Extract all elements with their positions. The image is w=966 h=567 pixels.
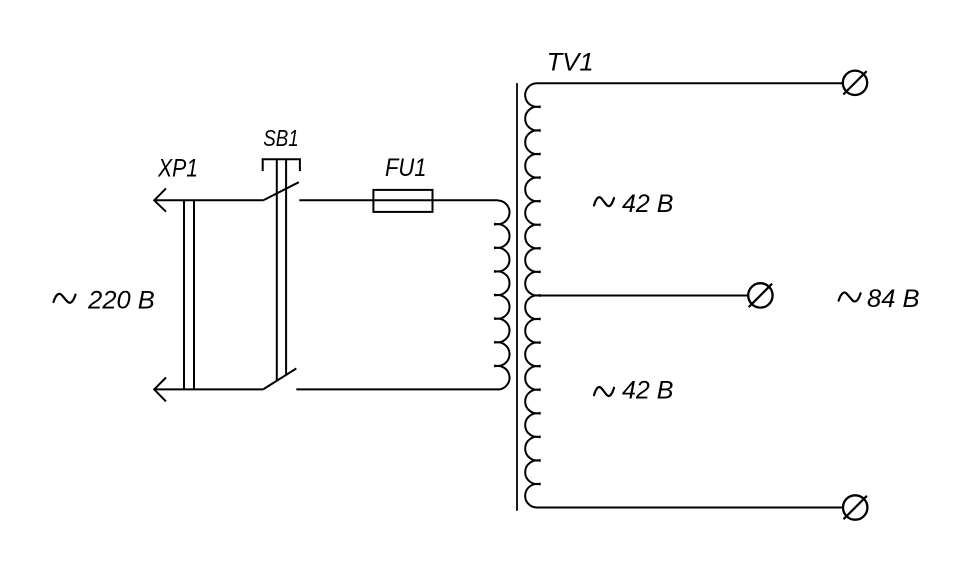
- svg-text:42 В: 42 В: [622, 378, 674, 405]
- svg-text:FU1: FU1: [385, 155, 427, 182]
- svg-text:TV1: TV1: [547, 50, 594, 77]
- svg-text:XP1: XP1: [157, 156, 198, 183]
- svg-text:SB1: SB1: [263, 125, 299, 151]
- svg-text:42 В: 42 В: [622, 191, 674, 218]
- svg-text:84 В: 84 В: [867, 286, 920, 313]
- svg-text:220 В: 220 В: [87, 288, 155, 315]
